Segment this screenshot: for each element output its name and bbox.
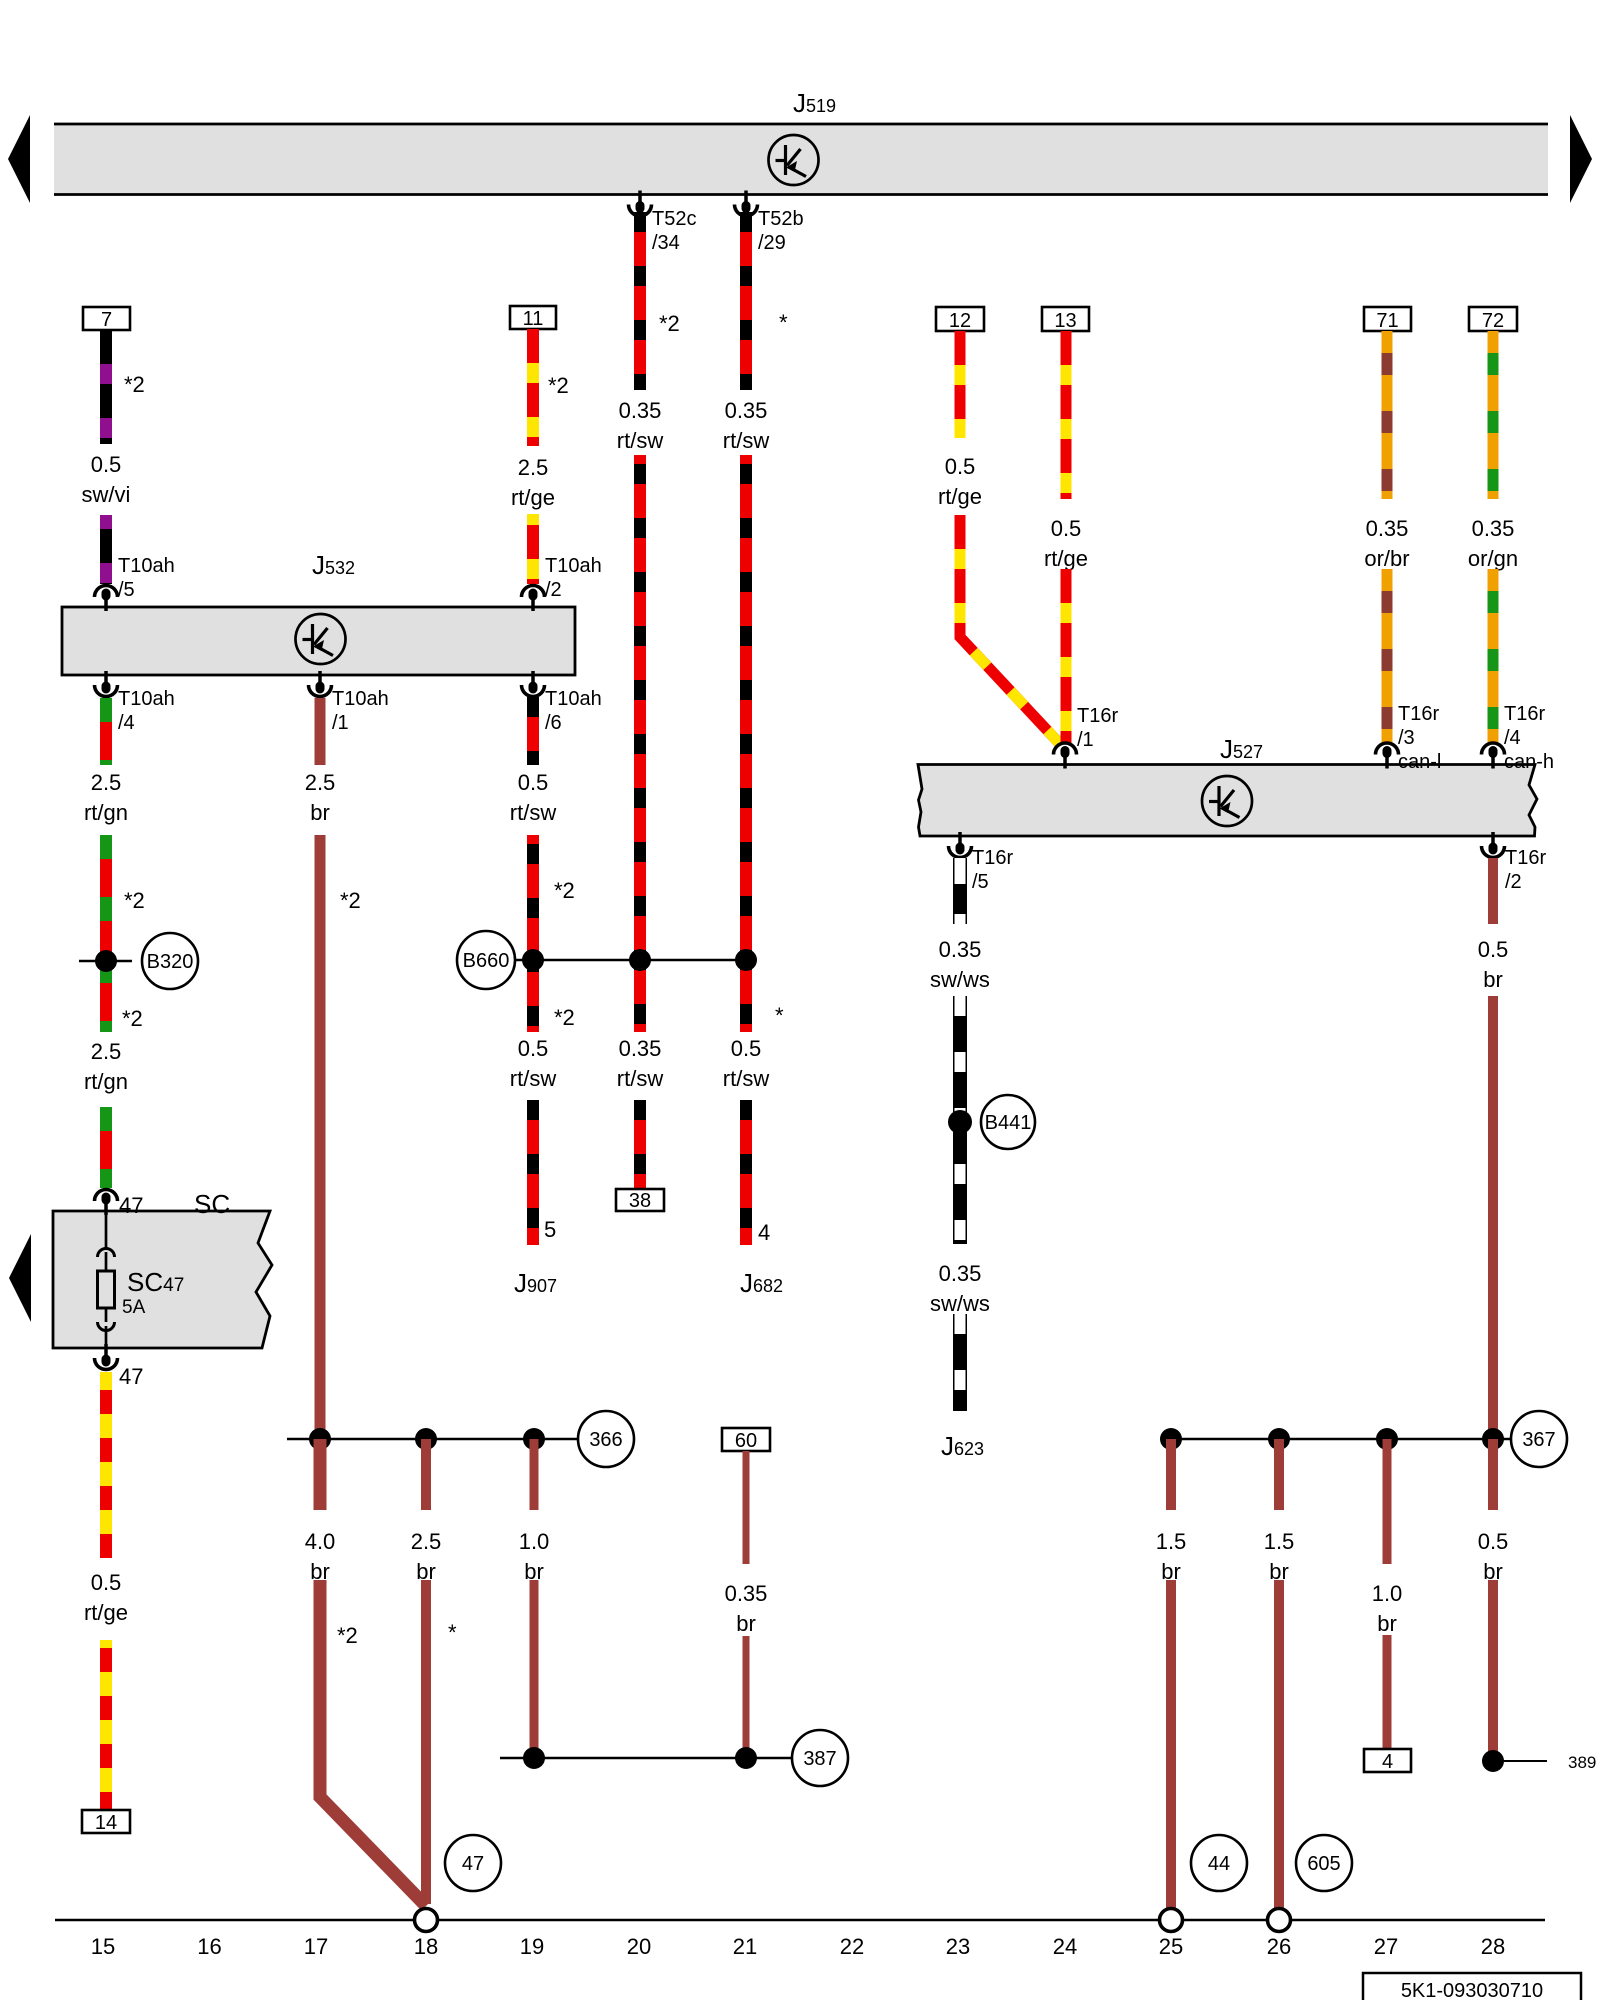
svg-text:br: br [310, 800, 330, 825]
track numbers 15-28 [91, 1934, 1505, 1959]
svg-text:11: 11 [523, 308, 544, 330]
node ground connection 387 [792, 1730, 848, 1786]
wire 0.5 rt/ge from 13 to T16r/1 [1061, 569, 1072, 743]
svg-text:389: 389 [1568, 1753, 1596, 1772]
svg-text:47: 47 [119, 1193, 143, 1218]
svg-text:rt/ge: rt/ge [938, 484, 982, 509]
svg-text:T10ah: T10ah [118, 688, 175, 710]
svg-text:J682: J682 [740, 1268, 783, 1298]
svg-text:*2: *2 [659, 311, 680, 336]
wire 0.5 rt/ge from terminal 12 upper [955, 331, 966, 438]
wire 2.5 br from T10ah/1 to 366 [315, 835, 326, 1439]
junction line 367 [1171, 1438, 1510, 1441]
label 0.5 rt/ge (SC47) [84, 1570, 128, 1625]
wire 4.0 br to ground 47 [314, 1439, 327, 1510]
svg-text:23: 23 [946, 1934, 970, 1959]
svg-text:*: * [775, 1003, 784, 1028]
svg-text:B660: B660 [463, 950, 510, 972]
svg-text:*2: *2 [122, 1006, 143, 1031]
svg-text:4: 4 [758, 1220, 770, 1245]
terminal 72 [1469, 307, 1517, 332]
continuation arrow top-left [8, 115, 30, 203]
junction 387 dot at 21 [735, 1747, 757, 1769]
wire 1.0 br lower to 387 [530, 1580, 539, 1758]
wire 0.5 rt/ge to terminal 14 [100, 1640, 112, 1810]
junction 366 dot at 17 [309, 1428, 331, 1450]
svg-text:0.35: 0.35 [939, 937, 982, 962]
svg-text:/5: /5 [118, 579, 135, 601]
wire 0.5 rt/ge from terminal 13 upper [1061, 331, 1072, 499]
wire 0.5 rt/sw to J682 [740, 1100, 752, 1245]
svg-text:T10ah: T10ah [332, 688, 389, 710]
svg-text:*2: *2 [337, 1623, 358, 1648]
label 0.5 br (T16r/2) [1478, 937, 1509, 992]
junction 367 dot at 27 [1376, 1428, 1398, 1450]
svg-text:*2: *2 [554, 878, 575, 903]
svg-text:sw/vi: sw/vi [82, 482, 131, 507]
node B660 connection [457, 931, 515, 989]
label 0.5 br (28) [1478, 1529, 1509, 1584]
svg-text:/2: /2 [545, 579, 562, 601]
wire 2.5 rt/gn from T10ah/4 upper [100, 698, 112, 765]
node B320 ground connection [142, 933, 198, 989]
svg-text:0.5: 0.5 [518, 1036, 549, 1061]
page number box 5K1-093030710 [1363, 1973, 1581, 2000]
svg-text:71: 71 [1376, 310, 1398, 332]
wire 0.35 rt/sw from T52c/34 to B660 [634, 455, 646, 1032]
svg-text:rt/gn: rt/gn [84, 800, 128, 825]
terminal 4 [1364, 1749, 1411, 1773]
terminal 71 [1364, 307, 1411, 332]
svg-text:4.0: 4.0 [305, 1529, 336, 1554]
svg-text:0.5: 0.5 [1051, 516, 1082, 541]
svg-text:22: 22 [840, 1934, 864, 1959]
wire 2.5 br upper to ground 47 [421, 1439, 431, 1510]
wire 2.5 rt/ge to T10ah/2 [527, 514, 539, 584]
control unit J519 onboard supply control unit bar [54, 124, 1548, 195]
label 2.5 br (T10ah/1) [305, 770, 336, 825]
svg-text:rt/sw: rt/sw [723, 1066, 770, 1091]
svg-text:T16r: T16r [1505, 847, 1546, 869]
control unit J527 steering column electronics [918, 765, 1537, 837]
junction 387 dot at 19 [523, 1747, 545, 1769]
svg-text:2.5: 2.5 [91, 770, 122, 795]
wire 2.5 rt/ge from terminal 11 [527, 329, 539, 446]
connector T10ah/4 on J532 bottom [95, 671, 175, 734]
svg-text:T10ah: T10ah [545, 555, 602, 577]
svg-text:rt/ge: rt/ge [511, 485, 555, 510]
svg-text:2.5: 2.5 [411, 1529, 442, 1554]
svg-text:7: 7 [101, 309, 112, 331]
svg-text:19: 19 [520, 1934, 544, 1959]
svg-text:J519: J519 [793, 88, 836, 118]
svg-text:0.35: 0.35 [619, 1036, 662, 1061]
connector T16r/5 on J527 bottom [949, 832, 1014, 893]
wire 0.35 or/br from terminal 71 upper [1382, 331, 1393, 499]
svg-text:T52c: T52c [652, 208, 696, 230]
svg-text:/1: /1 [332, 712, 349, 734]
wire 0.5 br from T16r/2 to 367 [1488, 996, 1498, 1439]
label 4.0 br [305, 1529, 336, 1584]
wire 0.5 rt/ge from 12 to T16r/1 [960, 515, 1060, 744]
svg-text:rt/sw: rt/sw [723, 428, 770, 453]
wire 0.35 sw/ws from T16r/5 upper [953, 858, 967, 924]
svg-text:0.5: 0.5 [518, 770, 549, 795]
junction B441 junction dot [948, 1110, 972, 1134]
node B441 connection [981, 1095, 1035, 1149]
wire 0.35 rt/sw to terminal 38 [634, 1100, 646, 1189]
wire 1.0 br upper to terminal 4 [1383, 1439, 1392, 1564]
svg-text:1.0: 1.0 [1372, 1581, 1403, 1606]
svg-text:rt/sw: rt/sw [510, 1066, 557, 1091]
svg-text:*: * [779, 310, 788, 335]
wire 1.5 br lower to ground 605 [1274, 1580, 1284, 1908]
wire 0.35 or/br from 71 to T16r/3 [1382, 569, 1393, 743]
svg-text:366: 366 [589, 1429, 622, 1451]
svg-text:/4: /4 [1504, 727, 1521, 749]
connector T52b/29 on J519 [735, 191, 804, 255]
wire 0.5 rt/sw from T52b/29 to B660 [740, 455, 752, 1032]
svg-text:rt/sw: rt/sw [510, 800, 557, 825]
svg-text:1.5: 1.5 [1264, 1529, 1295, 1554]
svg-text:0.5: 0.5 [1478, 1529, 1509, 1554]
ground symbol 47 at track 18 [415, 1909, 438, 1932]
svg-text:T16r: T16r [1398, 703, 1439, 725]
svg-text:br: br [1377, 1611, 1397, 1636]
label 0.35 br (60) [725, 1581, 768, 1636]
svg-text:5A: 5A [122, 1297, 146, 1318]
junction 367 dot at 26 [1268, 1428, 1290, 1450]
label 1.5 br (25) [1156, 1529, 1187, 1584]
svg-text:2.5: 2.5 [305, 770, 336, 795]
wire 0.35 or/gn from 72 to T16r/4 [1488, 569, 1499, 743]
label 0.35 sw/ws lower [930, 1261, 990, 1316]
wire 0.35 sw/ws to J623 [953, 1314, 967, 1411]
wire 0.5 br from T16r/2 upper [1488, 858, 1498, 924]
svg-text:0.35: 0.35 [939, 1261, 982, 1286]
svg-text:*2: *2 [124, 888, 145, 913]
label 0.5 rt/sw (J907 wire) [510, 1036, 557, 1091]
svg-text:*2: *2 [548, 373, 569, 398]
terminal 60 [722, 1428, 770, 1452]
svg-text:2.5: 2.5 [518, 455, 549, 480]
svg-text:0.5: 0.5 [1478, 937, 1509, 962]
svg-text:/2: /2 [1505, 871, 1522, 893]
svg-text:/29: /29 [758, 232, 786, 254]
wire 1.5 br upper to ground 605 [1274, 1439, 1284, 1510]
wire 2.5 br lower to ground 47 [421, 1580, 431, 1904]
track baseline [55, 1919, 1545, 1921]
connector T16r/4 on J527 top [1482, 703, 1555, 773]
junction 367 dot at 25 [1160, 1428, 1182, 1450]
svg-text:16: 16 [197, 1934, 221, 1959]
svg-text:T52b: T52b [758, 208, 804, 230]
svg-text:17: 17 [304, 1934, 328, 1959]
ground symbol 605 at track 26 [1268, 1909, 1291, 1932]
svg-text:J907: J907 [514, 1268, 557, 1298]
wire 1.0 br lower to terminal 4 [1383, 1635, 1392, 1749]
K symbol in J519 [769, 135, 819, 185]
K symbol in J527 [1202, 776, 1252, 826]
svg-text:21: 21 [733, 1934, 757, 1959]
svg-text:or/br: or/br [1364, 546, 1409, 571]
wire 0.5 rt/sw to J907 [527, 1100, 539, 1245]
svg-text:1.0: 1.0 [519, 1529, 550, 1554]
svg-text:T10ah: T10ah [118, 555, 175, 577]
label 0.35 rt/sw below B660 [617, 1036, 664, 1091]
svg-text:2.5: 2.5 [91, 1039, 122, 1064]
svg-text:J527: J527 [1220, 734, 1263, 764]
connector T10ah/6 on J532 bottom [522, 671, 602, 734]
svg-text:br: br [1483, 967, 1503, 992]
svg-text:T16r: T16r [972, 847, 1013, 869]
svg-text:B441: B441 [985, 1112, 1032, 1134]
terminal 12 [936, 307, 984, 332]
svg-text:can-h: can-h [1504, 751, 1554, 773]
label 0.5 rt/ge (13) [1044, 516, 1088, 571]
svg-text:24: 24 [1053, 1934, 1077, 1959]
svg-text:can-l: can-l [1398, 751, 1441, 773]
junction line 366 [287, 1438, 577, 1441]
wire 0.35 sw/ws to B441 [953, 996, 967, 1244]
svg-text:26: 26 [1267, 1934, 1291, 1959]
svg-text:/34: /34 [652, 232, 680, 254]
terminal 13 [1042, 307, 1089, 332]
svg-text:0.35: 0.35 [725, 398, 768, 423]
svg-text:0.5: 0.5 [91, 1570, 122, 1595]
label 0.5 rt/sw (T10ah/6) [510, 770, 557, 825]
junction B660 dot 1 [522, 949, 544, 971]
svg-text:1.5: 1.5 [1156, 1529, 1187, 1554]
label 0.35 or/gn [1468, 516, 1518, 571]
junction B320 junction dot [95, 950, 117, 972]
svg-text:0.5: 0.5 [731, 1036, 762, 1061]
connector 47 into SC [95, 1190, 118, 1216]
svg-text:J623: J623 [941, 1431, 984, 1461]
svg-text:rt/sw: rt/sw [617, 428, 664, 453]
svg-text:28: 28 [1481, 1934, 1505, 1959]
svg-text:/4: /4 [118, 712, 135, 734]
label 2.5 rt/gn lower [84, 1039, 128, 1094]
wire 2.5 rt/gn to fuse SC47 [100, 1107, 112, 1188]
svg-text:20: 20 [627, 1934, 651, 1959]
svg-text:rt/ge: rt/ge [84, 1600, 128, 1625]
connector T52c/34 on J519 [629, 191, 697, 255]
svg-text:T10ah: T10ah [545, 688, 602, 710]
wire 0.5 sw/vi from terminal 7 [100, 330, 112, 444]
wire 2.5 br from T10ah/1 upper [315, 698, 326, 765]
svg-text:*2: *2 [124, 372, 145, 397]
fuse SC47 5A [98, 1211, 185, 1348]
svg-text:5: 5 [544, 1217, 556, 1242]
svg-text:*2: *2 [340, 888, 361, 913]
label 0.35 rt/sw (T52b) [723, 398, 770, 453]
continuation arrow top-right [1570, 115, 1592, 203]
junction 366 dot at 19 [523, 1428, 545, 1450]
junction B660 dot 3 [735, 949, 757, 971]
svg-text:T16r: T16r [1504, 703, 1545, 725]
svg-text:15: 15 [91, 1934, 115, 1959]
svg-text:rt/ge: rt/ge [1044, 546, 1088, 571]
node ground 47 label [445, 1835, 501, 1891]
label 1.0 br (27) [1372, 1581, 1403, 1636]
svg-text:rt/sw: rt/sw [617, 1066, 664, 1091]
ground symbol 44 at track 25 [1160, 1909, 1183, 1932]
connector T16r/2 on J527 bottom [1482, 832, 1547, 893]
svg-text:4: 4 [1382, 1751, 1393, 1773]
junction line 389 [1493, 1760, 1547, 1762]
svg-text:J532: J532 [312, 550, 355, 580]
svg-text:14: 14 [95, 1812, 117, 1834]
svg-text:sw/ws: sw/ws [930, 967, 990, 992]
svg-text:0.35: 0.35 [1472, 516, 1515, 541]
label 0.5 sw/vi [82, 452, 131, 507]
junction line at B660 [514, 959, 746, 962]
junction 367 dot at 28 [1482, 1428, 1504, 1450]
node ground 605 label [1296, 1835, 1352, 1891]
label 0.35 sw/ws upper [930, 937, 990, 992]
svg-text:27: 27 [1374, 1934, 1398, 1959]
svg-text:T16r: T16r [1077, 705, 1118, 727]
svg-text:0.35: 0.35 [725, 1581, 768, 1606]
connector T16r/3 on J527 top [1376, 703, 1442, 773]
svg-text:60: 60 [735, 1430, 757, 1452]
wire 0.5 br upper to 389 [1488, 1439, 1498, 1510]
wire 4.0 br lower to ground 47 [320, 1580, 426, 1906]
wire 0.5 sw/vi to T10ah/5 [100, 515, 112, 584]
svg-text:387: 387 [803, 1748, 836, 1770]
node ground connection 367 [1511, 1411, 1567, 1467]
wire 0.35 rt/sw from T52b/29 upper [740, 212, 752, 390]
wire 0.5 rt/sw from T10ah/6 upper [527, 697, 539, 765]
svg-text:0.5: 0.5 [91, 452, 122, 477]
svg-text:5K1-093030710: 5K1-093030710 [1401, 1980, 1543, 2000]
terminal 11 [510, 306, 556, 330]
label 0.5 rt/ge (12) [938, 454, 982, 509]
junction 366 dot at 18 [415, 1428, 437, 1450]
svg-text:44: 44 [1208, 1853, 1230, 1875]
K symbol in J532 [296, 614, 346, 664]
continuation arrow mid-left [9, 1234, 31, 1322]
junction line 387 [500, 1757, 791, 1760]
svg-text:/1: /1 [1077, 729, 1094, 751]
node ground 44 label [1191, 1835, 1247, 1891]
junction B660 dot 2 [629, 949, 651, 971]
label 2.5 rt/ge (11) [511, 455, 555, 510]
wire 0.35 rt/sw from T52c/34 upper [634, 212, 646, 390]
label 0.35 rt/sw (T52c) [617, 398, 664, 453]
svg-text:B320: B320 [147, 951, 194, 973]
wire 0.5 rt/sw from T10ah/6 to B660 [527, 835, 539, 1032]
wire 0.35 br from terminal 60 upper [743, 1451, 750, 1564]
label 0.5 rt/sw (J682 wire) [723, 1036, 770, 1091]
svg-text:/6: /6 [545, 712, 562, 734]
svg-text:25: 25 [1159, 1934, 1183, 1959]
connector T10ah/1 on J532 bottom [309, 671, 389, 734]
label 1.0 br (19) [519, 1529, 550, 1584]
svg-text:*: * [448, 1620, 457, 1645]
wire 0.35 or/gn from terminal 72 upper [1488, 331, 1499, 499]
label 0.35 or/br [1364, 516, 1409, 571]
node ground connection 366 [578, 1411, 634, 1467]
svg-text:0.5: 0.5 [945, 454, 976, 479]
wire 2.5 rt/gn to B320 [100, 835, 112, 1032]
svg-text:72: 72 [1482, 310, 1504, 332]
svg-text:or/gn: or/gn [1468, 546, 1518, 571]
svg-text:0.35: 0.35 [619, 398, 662, 423]
svg-text:rt/gn: rt/gn [84, 1069, 128, 1094]
terminal 14 [82, 1810, 130, 1834]
label 1.5 br (26) [1264, 1529, 1295, 1584]
svg-text:367: 367 [1522, 1429, 1555, 1451]
svg-text:605: 605 [1307, 1853, 1340, 1875]
control unit J532 voltage stabiliser [62, 607, 575, 675]
connector 47 out of SC [95, 1344, 118, 1370]
junction 389 junction dot [1482, 1750, 1504, 1772]
svg-text:/3: /3 [1398, 727, 1415, 749]
wire 1.0 br upper to 387 [530, 1439, 539, 1510]
svg-text:12: 12 [949, 310, 971, 332]
terminal 38 [616, 1189, 664, 1212]
svg-text:sw/ws: sw/ws [930, 1291, 990, 1316]
connector T16r/1 on J527 top [1054, 705, 1119, 769]
wire 0.5 br lower to 389 [1488, 1580, 1498, 1761]
svg-text:*2: *2 [554, 1005, 575, 1030]
wire 1.5 br upper to ground 44 [1166, 1439, 1176, 1510]
svg-text:13: 13 [1054, 310, 1076, 332]
wire 1.5 br lower to ground 44 [1166, 1580, 1176, 1908]
svg-text:/5: /5 [972, 871, 989, 893]
label 2.5 br (18) [411, 1529, 442, 1584]
fuse holder SC box [53, 1211, 272, 1348]
junction line at B320 [79, 960, 132, 963]
svg-text:38: 38 [629, 1190, 651, 1212]
connector T10ah/2 on J532 top [522, 555, 602, 611]
svg-text:47: 47 [119, 1364, 143, 1389]
svg-text:47: 47 [462, 1853, 484, 1875]
svg-text:18: 18 [414, 1934, 438, 1959]
connector T10ah/5 on J532 top [95, 555, 175, 611]
label 2.5 rt/gn upper [84, 770, 128, 825]
wire 0.35 br from terminal 60 to 387 [743, 1636, 750, 1758]
wire 0.5 rt/ge from SC47 upper [100, 1372, 112, 1558]
svg-text:SC: SC [194, 1189, 230, 1219]
svg-text:0.35: 0.35 [1366, 516, 1409, 541]
terminal 7 [83, 307, 130, 331]
svg-text:br: br [736, 1611, 756, 1636]
